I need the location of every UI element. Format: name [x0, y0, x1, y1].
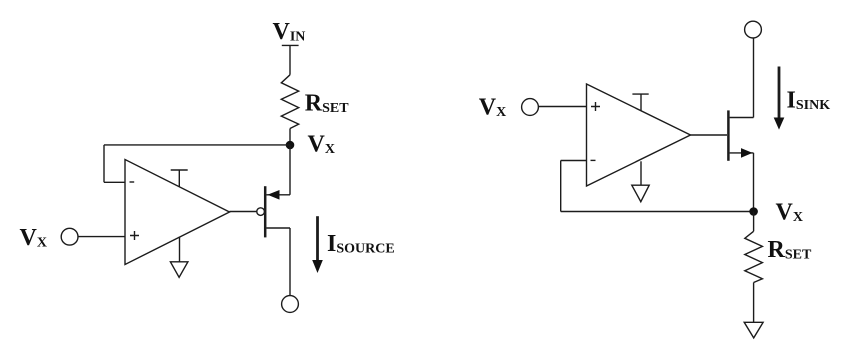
svg-text:VIN: VIN	[273, 19, 306, 45]
output terminal circle (left, bottom)	[282, 296, 299, 313]
wire: U1 output to gate bubble	[230, 211, 257, 213]
node junction V_X (right)	[749, 207, 758, 216]
input terminal circle V_X (left)	[61, 228, 78, 245]
net label V_X (left input)	[20, 225, 47, 251]
svg-text:RSET: RSET	[768, 237, 812, 263]
net label V_X (right input)	[479, 95, 506, 121]
minus sign, U2 inverting input	[591, 159, 596, 161]
transistor Q2 source line	[730, 152, 754, 154]
current arrow I_SOURCE shaft	[316, 216, 319, 261]
wire: Q2 drain up to top terminal	[753, 38, 755, 118]
wire: R_SET bottom to node V_X	[289, 129, 291, 146]
ground symbol of U2	[632, 185, 649, 202]
wire: feedback into inverting input	[104, 181, 125, 183]
top terminal circle (right)	[745, 21, 762, 38]
value label R_SET (right)	[768, 237, 812, 263]
transistor Q1 source line	[267, 227, 291, 229]
resistor R_SET (left)	[281, 75, 298, 129]
supply terminal bar V_IN	[282, 44, 299, 46]
plus sign, U1 non-inverting input	[130, 231, 139, 240]
wire: feedback left vertical	[103, 145, 105, 182]
plus sign, U2 non-inverting input	[591, 102, 600, 111]
gate bubble of Q1	[257, 208, 265, 216]
wire: feedback vertical (right)	[560, 161, 562, 212]
positive supply symbol of U1	[171, 170, 188, 187]
transistor Q2 drain line	[730, 117, 754, 119]
current label I_SOURCE	[327, 231, 395, 257]
current arrow I_SOURCE head	[312, 260, 323, 273]
svg-text:ISINK: ISINK	[787, 88, 831, 114]
positive supply symbol of U2	[632, 94, 648, 111]
transistor Q2 arrow (points away from bar)	[741, 148, 753, 158]
svg-text:VX: VX	[479, 95, 506, 121]
net label V_X (right node)	[776, 200, 803, 226]
wire: node to R_SET top (right)	[753, 212, 755, 232]
wire: V_IN bar to R_SET top	[289, 45, 291, 74]
svg-text:VX: VX	[20, 225, 47, 251]
wire: U2 inverting input feedback left	[561, 160, 587, 162]
net label V_IN	[273, 19, 306, 45]
wire: input terminal to non-inverting input	[78, 236, 125, 238]
wire: Q1 source down to output terminal	[289, 228, 291, 296]
minus sign, U1 inverting input	[130, 181, 135, 183]
svg-text:VX: VX	[776, 200, 803, 226]
input terminal circle V_X (right)	[522, 99, 539, 116]
net label V_X (left node)	[308, 132, 335, 158]
ground stem of U2	[640, 161, 642, 185]
op-amp U1 (left)	[125, 160, 230, 265]
wire: Q2 source down to node V_X (right)	[753, 153, 755, 212]
value label R_SET (left)	[305, 90, 349, 116]
current arrow I_SINK shaft	[778, 67, 781, 119]
wire: feedback top horizontal from node to left	[104, 144, 290, 146]
ground symbol (right, bottom)	[744, 322, 763, 338]
op-amp U2 (right)	[587, 84, 691, 186]
wire: R_SET bottom to ground (right)	[753, 283, 755, 323]
wire: U2 output to Q2 gate	[691, 134, 728, 136]
transistor Q2 channel bar (N-type)	[727, 110, 730, 160]
wire: feedback bottom horizontal to node V_X (right)	[561, 211, 754, 213]
ground symbol of U1	[170, 262, 188, 278]
ground stem of U1	[179, 237, 181, 262]
svg-text:VX: VX	[308, 132, 335, 158]
node junction V_X (left)	[286, 141, 295, 150]
svg-text:RSET: RSET	[305, 90, 349, 116]
transistor Q1 channel bar (P-type)	[264, 186, 267, 237]
wire: right input terminal to non-inverting input	[538, 106, 586, 108]
current label I_SINK	[787, 88, 831, 114]
svg-text:ISOURCE: ISOURCE	[327, 231, 395, 257]
wire: Q1 drain up to node V_X	[289, 145, 291, 195]
resistor R_SET (right)	[745, 231, 763, 282]
current arrow I_SINK head	[774, 118, 785, 130]
transistor Q1 arrow (points into bar)	[268, 190, 280, 200]
transistor Q1 drain line	[267, 194, 291, 196]
